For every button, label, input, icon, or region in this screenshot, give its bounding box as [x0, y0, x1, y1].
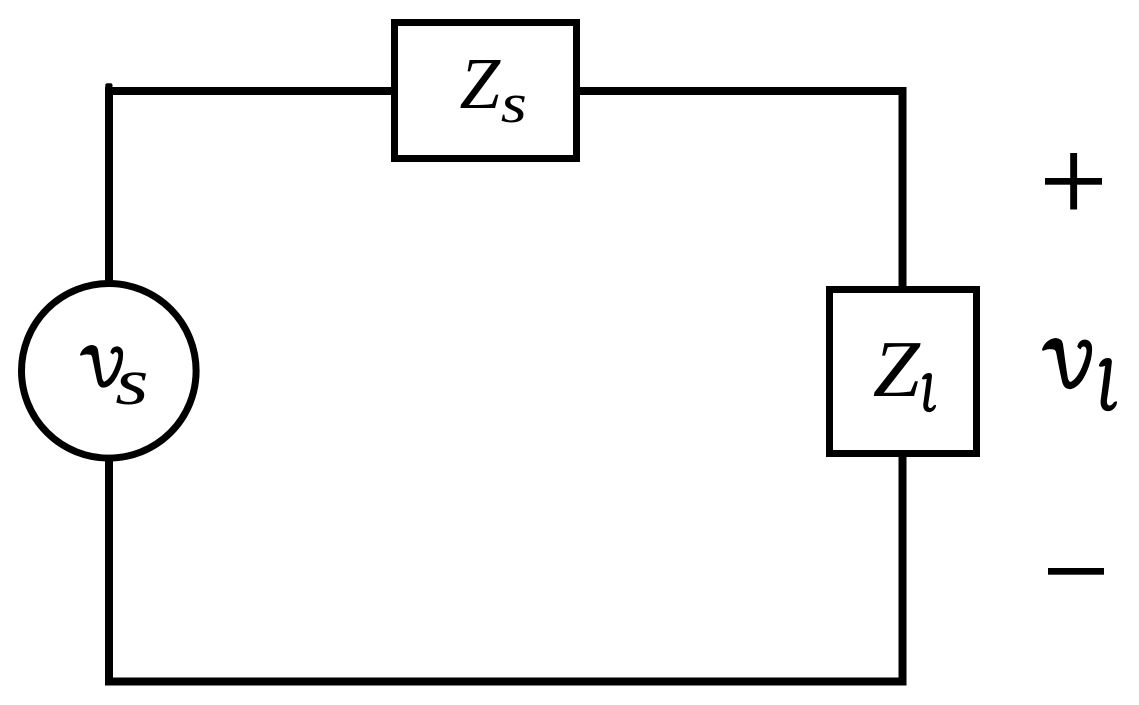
svg-text:s: s: [501, 73, 527, 135]
wire: bottom (Zl bottom to source bottom): [109, 456, 903, 682]
svg-text:s: s: [115, 344, 148, 419]
svg-text:Z: Z: [460, 43, 502, 124]
label vs: v: [81, 346, 123, 387]
node A (top-left corner stub): [105, 83, 112, 89]
voltage source vs (circle): [22, 284, 197, 459]
impedance Zl (box): [830, 290, 977, 454]
minus sign (vl polarity -): [1048, 568, 1104, 575]
label vl: subscript l: [1100, 359, 1117, 411]
wire: top-right (Zs right to Zl top): [579, 91, 903, 287]
svg-text:Z: Z: [873, 325, 921, 413]
label vl: v: [1043, 339, 1092, 389]
label Zl: subscript l: [923, 374, 936, 412]
impedance Zs (box): [395, 23, 577, 159]
wire: top-left (source top to Zs left): [109, 91, 392, 286]
plus sign (vl polarity +): [1045, 153, 1102, 210]
